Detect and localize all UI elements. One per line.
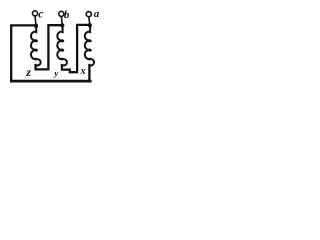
coil z (winding z) [31,26,41,65]
terminal circle b [59,11,64,16]
svg-text:b: b [64,9,70,21]
junction dot at b [60,23,64,27]
svg-text:x: x [80,66,86,77]
terminal stub c [34,16,37,25]
svg-text:c: c [38,8,43,20]
wire net a: winding y bottom to riser up to a-dot [62,25,90,72]
terminal stub b [60,16,63,24]
terminal stub a [88,17,91,24]
coil y (winding y) [57,26,67,65]
bottom bus wire (net c) [11,80,90,83]
wire from bus up to winding x bottom (net c) [88,65,90,81]
svg-text:a: a [94,8,100,20]
junction dot at c [34,24,38,28]
terminal circle c [32,11,37,16]
svg-text:z: z [25,65,31,79]
wire net b: winding z bottom to riser up to b-dot [36,25,63,69]
wire net c: c-dot left, down left side [11,25,36,81]
coil x (winding x) [85,26,94,65]
terminal circle a [86,12,91,17]
svg-text:y: y [53,68,58,78]
junction dot at a [88,23,92,27]
